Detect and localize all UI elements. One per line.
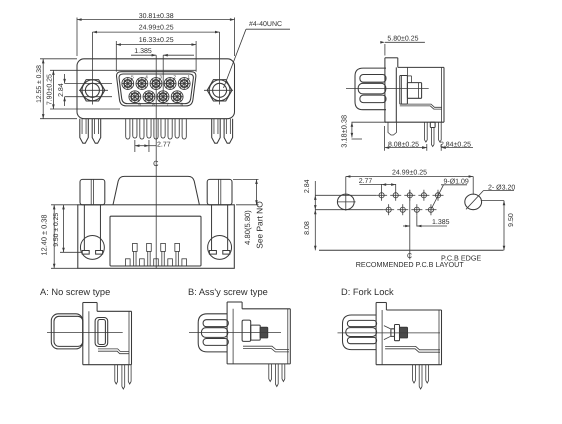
svg-text:2.84: 2.84	[304, 179, 311, 193]
svg-text:2.84±0.25: 2.84±0.25	[440, 141, 471, 148]
svg-text:9-Ø1.09: 9-Ø1.09	[444, 178, 469, 186]
svg-text:3.18±0.38: 3.18±0.38	[340, 115, 349, 148]
svg-text:5: 5	[131, 75, 134, 80]
svg-text:2: 2	[173, 75, 176, 80]
svg-text:9.50 ± 0.25: 9.50 ± 0.25	[53, 213, 60, 247]
svg-text:See Part NO: See Part NO	[254, 201, 264, 249]
svg-text:1.385: 1.385	[432, 219, 450, 226]
svg-text:24.99±0.25: 24.99±0.25	[392, 169, 427, 176]
svg-text:7: 7	[166, 102, 169, 107]
svg-text:9: 9	[138, 102, 141, 107]
svg-text:8.08±0.25: 8.08±0.25	[388, 141, 419, 148]
svg-text:B: Ass'y screw type: B: Ass'y screw type	[188, 287, 268, 297]
svg-text:RECOMMENDED P.C.B LAYOUT: RECOMMENDED P.C.B LAYOUT	[356, 260, 465, 269]
svg-text:3: 3	[159, 75, 162, 80]
svg-text:5.80±0.25: 5.80±0.25	[387, 36, 418, 43]
svg-text:12.40 ± 0.38: 12.40 ± 0.38	[40, 214, 49, 255]
svg-text:1.385: 1.385	[134, 48, 152, 55]
svg-text:2.77: 2.77	[359, 178, 373, 185]
svg-text:A: No screw type: A: No screw type	[40, 287, 110, 297]
svg-text:2.77: 2.77	[157, 142, 171, 149]
svg-text:24.99±0.25: 24.99±0.25	[139, 25, 174, 32]
svg-text:D: Fork Lock: D: Fork Lock	[341, 287, 394, 297]
svg-text:6: 6	[180, 102, 183, 107]
svg-text:8: 8	[152, 102, 155, 107]
svg-text:2.84: 2.84	[58, 83, 65, 97]
svg-text:9.50: 9.50	[508, 213, 515, 227]
svg-text:4.80(5.80): 4.80(5.80)	[243, 210, 252, 245]
svg-text:12.55 ± 0.38: 12.55 ± 0.38	[36, 65, 43, 103]
svg-text:1: 1	[188, 75, 191, 80]
svg-text:30.81±0.38: 30.81±0.38	[139, 13, 174, 20]
svg-text:8.08: 8.08	[304, 221, 311, 235]
svg-text:4: 4	[145, 75, 148, 80]
svg-text:#4-40UNC: #4-40UNC	[249, 21, 282, 28]
svg-text:7.90±0.25: 7.90±0.25	[47, 74, 54, 105]
svg-text:16.33±0.25: 16.33±0.25	[139, 37, 174, 44]
